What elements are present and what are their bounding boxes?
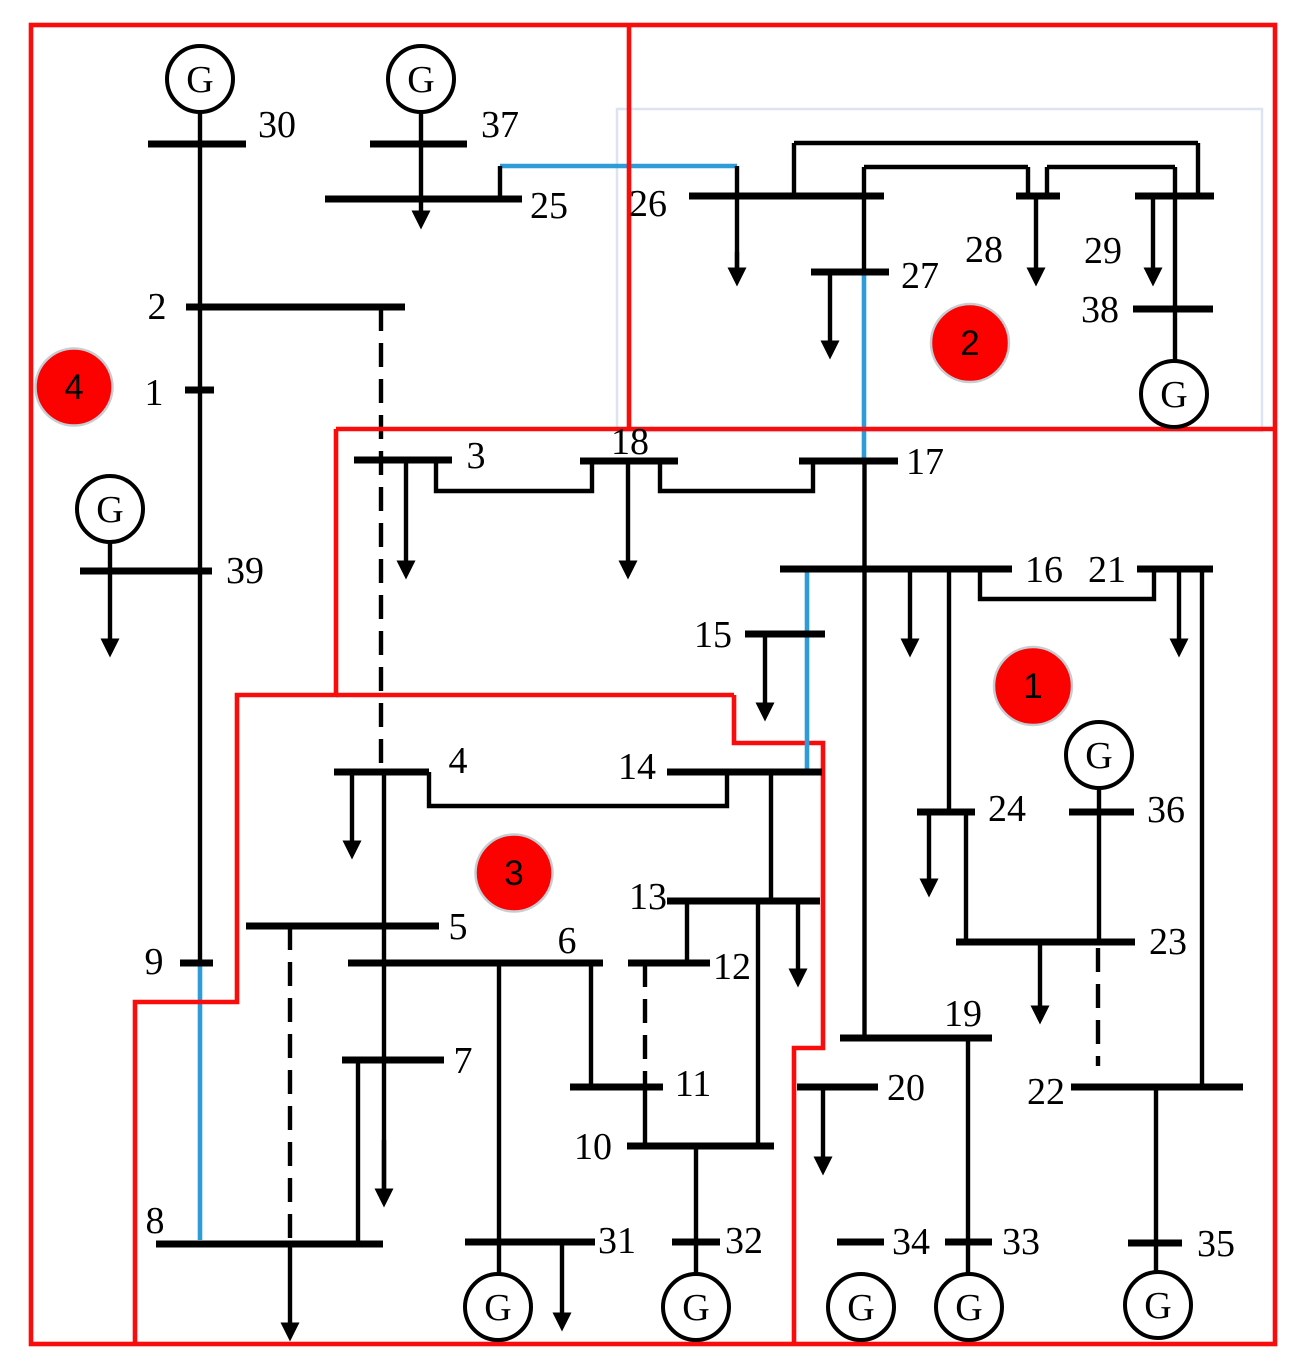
wire bus 16 to bus 24 (947, 569, 951, 812)
generator G at bus 30 (167, 46, 233, 112)
zone 1 marker circle (994, 647, 1072, 725)
wire 28-29-38 vertical through bus 29 (1173, 167, 1177, 309)
zone 2 marker circle (931, 304, 1009, 382)
wire 16-21 connector (980, 569, 1154, 599)
load arrow at bus 24 (920, 812, 939, 898)
load arrow at bus 28 (1027, 196, 1046, 287)
svg-text:3: 3 (467, 435, 486, 477)
svg-text:17: 17 (906, 441, 944, 483)
wire bus 2 to bus 4 (dashed) (379, 307, 383, 772)
bus 19 bar (840, 1035, 992, 1042)
bus 1 bar (185, 387, 214, 394)
wire 26-27 through bus 26 bar (862, 167, 866, 272)
wire bus 13 to bus 10 (756, 901, 760, 1146)
wire G30 to bus 2 (198, 111, 202, 307)
svg-text:33: 33 (1002, 1221, 1040, 1263)
wire bus 21 to bus 22 (1200, 569, 1204, 1087)
svg-text:12: 12 (713, 946, 751, 988)
svg-text:G: G (1085, 735, 1112, 777)
bus 39 bar (80, 568, 212, 575)
wire bus 19 - bus 33 - G33 (966, 1038, 970, 1276)
generator G at bus 33 (936, 1274, 1002, 1340)
svg-text:19: 19 (944, 993, 982, 1035)
wire G37 to bus 25 (through bus 37) (419, 111, 423, 199)
bus 38 bar (1133, 306, 1213, 313)
bus 32 bar (672, 1239, 720, 1246)
bus 22 bar (1071, 1084, 1243, 1091)
wire bus 5 to bus 8 (dashed) (288, 926, 292, 1244)
svg-text:23: 23 (1149, 921, 1187, 963)
wire bus 26 up to line 26-29 (792, 143, 796, 196)
svg-text:27: 27 (901, 255, 939, 297)
wire G39 to bus 39 (108, 541, 112, 571)
bus 6 bar (348, 960, 603, 967)
generator G at bus 39 (77, 476, 143, 542)
svg-text:15: 15 (694, 614, 732, 656)
svg-text:39: 39 (226, 550, 264, 592)
wire bus 38 to G38 (1173, 309, 1177, 361)
tie line 9-8 (blue) (198, 966, 203, 1240)
svg-text:37: 37 (481, 104, 519, 146)
generator G at bus 36 (1066, 722, 1132, 788)
bus 5 bar (246, 923, 439, 930)
generator G at bus 34 (828, 1274, 894, 1340)
svg-text:34: 34 (892, 1221, 930, 1263)
bus 14 bar (667, 769, 822, 776)
zone 4 marker circle (36, 349, 113, 426)
bus 31 bar (465, 1239, 595, 1246)
svg-text:36: 36 (1147, 789, 1185, 831)
svg-text:G: G (1144, 1285, 1171, 1327)
bus 10 bar (627, 1143, 774, 1150)
tie line 27-17 (blue) (862, 274, 867, 459)
wire bus 23 to bus 22 (dashed) (1096, 948, 1100, 1066)
svg-text:22: 22 (1027, 1071, 1065, 1113)
load arrow at bus 21 (1170, 569, 1189, 658)
svg-text:G: G (96, 489, 123, 531)
svg-text:G: G (955, 1287, 982, 1329)
bus 35 bar (1128, 1240, 1182, 1247)
load arrow at bus 16 (901, 569, 920, 658)
load arrow at bus 15 (756, 634, 775, 722)
svg-text:G: G (1160, 374, 1187, 416)
wire bus 17 - bus 16 - bus 19 (862, 461, 866, 1038)
svg-text:G: G (484, 1287, 511, 1329)
svg-text:38: 38 (1081, 289, 1119, 331)
svg-text:35: 35 (1197, 1223, 1235, 1265)
wire bus 10 - bus 32 - G32 (694, 1146, 698, 1276)
svg-text:2: 2 (148, 286, 167, 328)
generator G at bus 35 (1125, 1272, 1191, 1338)
load arrow at bus 39 (101, 571, 120, 658)
wire bus 22 - bus 35 - G35 (1154, 1087, 1158, 1273)
wire 3-18 connector (436, 460, 592, 491)
bus 9 bar (180, 960, 213, 967)
bus 13 bar (667, 898, 820, 905)
svg-text:10: 10 (574, 1126, 612, 1168)
svg-text:29: 29 (1084, 230, 1122, 272)
wire tie line down through bus 26 (735, 166, 739, 268)
wire bus 4 - bus 5 - bus 6 - bus 7 load (382, 772, 386, 1189)
wire bus 11 to bus 10 (643, 1087, 647, 1146)
wire 26-29 top run (794, 141, 1198, 145)
svg-text:4: 4 (449, 740, 468, 782)
bus 29 bar (1135, 193, 1214, 200)
bus 30 bar (148, 141, 246, 148)
bus 7 bar (342, 1057, 444, 1064)
wire bus 7 to bus 8 (356, 1060, 360, 1244)
bus 3 bar (354, 457, 452, 464)
svg-text:24: 24 (988, 788, 1026, 830)
bus 17 bar (799, 458, 898, 465)
wire 18-17 connector (660, 461, 813, 491)
bus 24 bar (917, 809, 975, 816)
wire bus 2 - bus 1 - bus 39 - bus 9 (198, 307, 202, 963)
wire 4-14 connector (429, 772, 727, 806)
generator G at bus 38 (1141, 361, 1207, 427)
svg-text:2: 2 (960, 324, 979, 363)
svg-text:21: 21 (1088, 549, 1126, 591)
svg-text:1: 1 (1023, 667, 1042, 706)
svg-text:18: 18 (611, 421, 649, 463)
bus 21 bar (1137, 566, 1213, 573)
wire bus 12 to bus 11 (dashed) (643, 963, 647, 1087)
generator G at bus 37 (388, 46, 454, 112)
svg-text:20: 20 (887, 1067, 925, 1109)
bus 36 bar (1069, 809, 1134, 816)
svg-text:8: 8 (146, 1200, 165, 1242)
wire bus 14 to bus 13 (769, 772, 773, 901)
bus 25 bar (325, 196, 522, 203)
load arrow at bus 20 (814, 1087, 833, 1176)
svg-text:5: 5 (449, 906, 468, 948)
zone 3 marker circle (476, 835, 553, 912)
svg-text:30: 30 (258, 104, 296, 146)
tie line 16-15-14 (blue) (805, 572, 810, 770)
wire down to bus 28 (1026, 167, 1030, 196)
load arrow at bus 26 (728, 252, 747, 287)
bus 23 bar (956, 939, 1135, 946)
load arrow at bus 7 (375, 1140, 394, 1208)
svg-text:31: 31 (598, 1220, 636, 1262)
bus 28 bar (1016, 193, 1060, 200)
svg-text:G: G (682, 1287, 709, 1329)
wire bus 24 to bus 23 (964, 812, 968, 942)
svg-text:25: 25 (530, 185, 568, 227)
svg-text:14: 14 (618, 746, 656, 788)
wire bus 6 - bus 31 - G31 (497, 963, 501, 1276)
zone 2 light backdrop box (617, 109, 1262, 431)
bus 27 bar (811, 269, 889, 276)
zone boundary: zone 4 / zone 3 staircase (135, 429, 336, 1344)
svg-text:6: 6 (558, 920, 577, 962)
bus 26 bar (689, 193, 884, 200)
bus 18 bar (580, 458, 678, 465)
wire bus 28 up to line 28-29 (1045, 167, 1049, 196)
load arrow at bus 8 (281, 1244, 300, 1342)
svg-text:16: 16 (1025, 549, 1063, 591)
wire bus 13 to bus 12 (685, 901, 689, 963)
svg-text:13: 13 (629, 876, 667, 918)
bus 4 bar (334, 769, 429, 776)
svg-text:28: 28 (965, 229, 1003, 271)
bus 11 bar (570, 1084, 663, 1091)
load arrow at bus 18 (619, 461, 638, 580)
zone boundary: zone 3 top edge (336, 693, 734, 698)
bus 8 bar (156, 1241, 383, 1248)
bus 34 bar (837, 1239, 884, 1246)
zone boundary: zone 3 / zone 1 staircase (734, 695, 823, 1344)
load arrow at bus 31 (553, 1242, 572, 1332)
svg-text:9: 9 (145, 941, 164, 983)
svg-text:26: 26 (629, 183, 667, 225)
bus 2 bar (186, 304, 405, 311)
wire bus 25 stub up to tie line (498, 166, 502, 199)
generator G at bus 31 (465, 1274, 531, 1340)
wire 26-28 run (864, 165, 1028, 169)
bus 16 bar (780, 566, 1012, 573)
load arrow at bus 3 (397, 460, 416, 580)
svg-text:7: 7 (454, 1040, 473, 1082)
tie line 25-26 (blue) (500, 164, 737, 169)
svg-text:11: 11 (675, 1063, 712, 1105)
svg-text:4: 4 (64, 368, 83, 407)
bus 37 bar (370, 141, 467, 148)
wire G36 - bus 36 - bus 23 (1097, 787, 1101, 942)
load arrow at bus 23 (1031, 942, 1050, 1025)
load arrow at bus 13 (789, 901, 808, 988)
load arrow at bus 4 (343, 772, 362, 860)
svg-text:3: 3 (504, 854, 523, 893)
svg-text:1: 1 (145, 372, 164, 414)
wire bus 6 to bus 11 (589, 963, 593, 1087)
zone boundary: horizontal below zone 2 / top of zone 1 (336, 427, 1275, 432)
zone boundary: divider between zone 4 and zone 2 (627, 25, 632, 429)
bus 33 bar (945, 1239, 992, 1246)
load arrow at bus 25 (412, 199, 431, 230)
svg-text:G: G (186, 59, 213, 101)
wire down to bus 29 (1196, 143, 1200, 196)
svg-text:32: 32 (725, 1220, 763, 1262)
load arrow at bus 29 (1144, 196, 1163, 287)
svg-text:G: G (847, 1287, 874, 1329)
wire 28-29 run (1047, 165, 1175, 169)
load arrow at bus 27 (821, 272, 840, 360)
bus 15 bar (745, 631, 825, 638)
generator G at bus 32 (663, 1274, 729, 1340)
svg-text:G: G (407, 59, 434, 101)
bus 20 bar (797, 1084, 878, 1091)
bus 12 bar (628, 960, 710, 967)
